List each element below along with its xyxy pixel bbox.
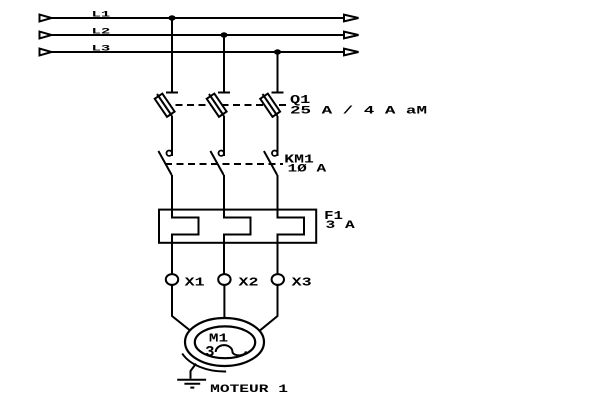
svg-text:X3: X3 [292,275,312,289]
wire L3 to Q1 pole 3 [277,52,279,93]
svg-text:L2: L2 [92,26,111,36]
svg-text:3 A: 3 A [326,220,356,232]
node junction on L3 [274,49,281,54]
wire Q1 pole 1 to KM1 pole 1 [171,116,173,156]
wire X1 to motor M1 [172,285,191,331]
ground [177,364,206,388]
wire F1 pole 3 to terminal X3 [277,242,279,274]
thermal element F1 pole 1 [172,211,199,242]
AC tilde symbol [216,345,246,355]
wire X3 to motor M1 [260,285,278,331]
wire F1 pole 1 to terminal X1 [171,242,173,274]
svg-text:1Ø A: 1Ø A [288,164,327,176]
wire KM1 pole 3 to F1 pole 3 [277,175,279,212]
wire F1 pole 2 to terminal X2 [223,242,225,274]
svg-text:X1: X1 [185,275,205,289]
thermal element F1 pole 2 [224,211,251,242]
fuse-disconnector Q1 pole 2 [207,93,230,117]
Q1 linkage dashed line [164,104,288,106]
contactor contact KM1 pole 3 [264,151,278,176]
svg-text:X2: X2 [239,275,259,289]
wire L1 to Q1 pole 1 [171,18,173,93]
motor frame earth arc [182,354,226,372]
motor M1 [185,318,264,366]
fuse-disconnector Q1 pole 3 [260,93,283,117]
wire Q1 pole 3 to KM1 pole 3 [277,116,279,156]
wire X2 to motor M1 [223,285,225,319]
node junction on L1 [168,15,175,20]
svg-text:L1: L1 [92,9,111,19]
wire KM1 pole 2 to F1 pole 2 [223,175,225,212]
svg-text:25 A / 4 A aM: 25 A / 4 A aM [290,105,428,117]
phase line L2 [40,32,359,39]
phase line L3 [40,49,359,56]
terminal X2 [218,274,230,285]
fuse-disconnector Q1 pole 1 [155,93,178,117]
thermal element F1 pole 3 [278,211,305,242]
wire L2 to Q1 pole 2 [223,35,225,93]
svg-text:M1: M1 [209,332,228,346]
terminal X1 [166,274,178,285]
svg-text:MOTEUR 1: MOTEUR 1 [210,384,288,396]
svg-text:L3: L3 [92,43,111,53]
terminal X3 [272,274,284,285]
svg-text:3: 3 [205,345,214,361]
KM1 linkage dashed line [165,163,283,165]
phase line L1 [40,15,359,22]
contactor contact KM1 pole 2 [210,151,224,176]
contactor contact KM1 pole 1 [158,151,172,176]
wire Q1 pole 2 to KM1 pole 2 [223,116,225,156]
wire KM1 pole 1 to F1 pole 1 [171,175,173,212]
node junction on L2 [220,32,227,37]
overload relay F1 body [159,210,316,243]
